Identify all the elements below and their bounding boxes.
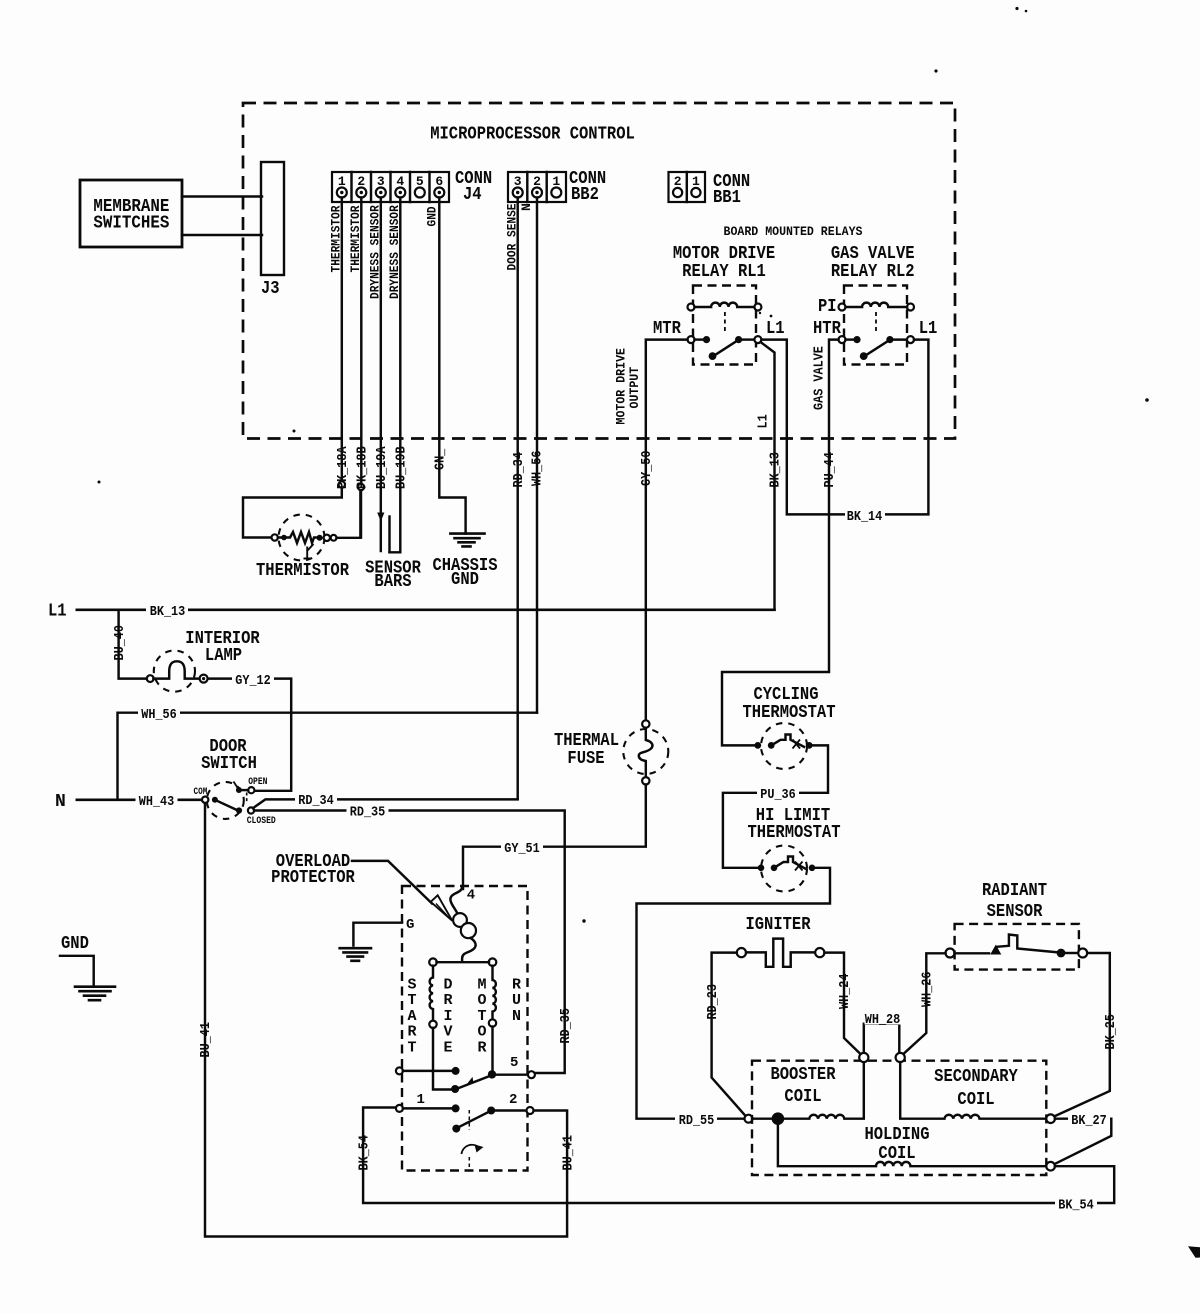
svg-text:BK_13: BK_13 — [768, 452, 784, 488]
microprocessor control dashed enclosure — [243, 103, 955, 439]
svg-text:L1: L1 — [48, 602, 67, 622]
RL2 contacts — [839, 336, 846, 343]
wire BK_25 radiant sensor right — [1054, 953, 1110, 1117]
svg-text:BK_14: BK_14 — [847, 509, 883, 525]
J4 pin 6 — [434, 188, 444, 198]
J4 pin 3 — [376, 188, 386, 198]
svg-text:1: 1 — [417, 1092, 425, 1108]
svg-text:WH_56: WH_56 — [530, 451, 546, 487]
svg-text:RELAY RL1: RELAY RL1 — [682, 262, 766, 282]
svg-text:RD_34: RD_34 — [298, 793, 334, 809]
splice node circle 1 — [859, 1053, 868, 1062]
svg-text:GY_12: GY_12 — [235, 673, 271, 689]
svg-text:OUTPUT: OUTPUT — [627, 367, 642, 409]
svg-text:R: R — [512, 977, 521, 994]
BB2 pin 1 — [551, 188, 561, 198]
wire WH_24 igniter right — [824, 953, 861, 1055]
svg-text:GAS VALVE: GAS VALVE — [812, 346, 828, 410]
wire GY_12 lamp to door switch OPEN — [208, 679, 291, 791]
overload protector callout — [271, 852, 452, 921]
door switch — [194, 737, 276, 827]
wire GY_51 thermal fuse to motor pin4 — [463, 785, 646, 890]
svg-text:D: D — [443, 977, 452, 994]
svg-text:COIL: COIL — [784, 1087, 821, 1107]
wire WH_56 from BB2 pin2 — [536, 198, 538, 713]
J4 pin 1 — [337, 188, 347, 198]
svg-text:IGNITER: IGNITER — [745, 915, 810, 935]
svg-text:R: R — [407, 1024, 416, 1041]
svg-text:BK_54: BK_54 — [1058, 1197, 1094, 1213]
svg-text:WH_24: WH_24 — [837, 974, 853, 1010]
svg-text:BK_13: BK_13 — [150, 604, 186, 620]
run winding — [493, 966, 496, 1020]
svg-text:RELAY RL2: RELAY RL2 — [831, 262, 915, 282]
svg-text:BOARD MOUNTED RELAYS: BOARD MOUNTED RELAYS — [724, 224, 863, 239]
motor switch row 5 — [396, 1055, 535, 1093]
J4 pin 5 — [415, 188, 425, 198]
svg-text:J3: J3 — [261, 279, 280, 299]
svg-text:GND: GND — [425, 206, 440, 226]
wire PK_18B from J4 pin2 — [360, 198, 362, 484]
svg-text:CYCLING: CYCLING — [753, 685, 818, 705]
svg-text:GAS VALVE: GAS VALVE — [831, 244, 915, 264]
svg-text:BK_54: BK_54 — [356, 1135, 372, 1171]
svg-text:COIL: COIL — [957, 1090, 994, 1110]
svg-text:BB2: BB2 — [571, 185, 599, 205]
wire PU_44 from RL2 to cycling thermostat — [722, 340, 839, 746]
node N bus — [77, 798, 203, 801]
svg-text:HTR: HTR — [813, 319, 841, 339]
connector BB2 — [508, 169, 606, 205]
svg-text:GY_51: GY_51 — [504, 841, 540, 857]
svg-text:LAMP: LAMP — [205, 646, 242, 666]
svg-text:GND: GND — [61, 934, 89, 954]
wire BK_14 linking RL1 L1 to RL2 L1 — [761, 340, 928, 515]
svg-text:RADIANT: RADIANT — [982, 881, 1047, 901]
svg-text:WH_26: WH_26 — [920, 972, 936, 1008]
svg-text:L1: L1 — [766, 319, 785, 339]
svg-text:RD_55: RD_55 — [679, 1113, 715, 1129]
svg-text:BB1: BB1 — [713, 188, 741, 208]
svg-text:SENSOR: SENSOR — [987, 902, 1043, 922]
wire RD_35 door switch to motor — [254, 811, 565, 1074]
svg-text:PI: PI — [818, 297, 837, 317]
svg-text:THERMAL: THERMAL — [554, 731, 619, 751]
svg-text:GN_: GN_ — [433, 448, 449, 470]
svg-text:R: R — [477, 1039, 486, 1056]
svg-text:HOLDING: HOLDING — [864, 1125, 929, 1145]
svg-text:PU_36: PU_36 — [760, 787, 796, 803]
svg-text:FUSE: FUSE — [567, 749, 604, 769]
igniter — [737, 915, 825, 967]
membrane switches box — [80, 180, 182, 247]
svg-text:L1: L1 — [919, 319, 938, 339]
wire BU_41 door switch to motor pin2 — [205, 803, 567, 1236]
svg-text:THERMOSTAT: THERMOSTAT — [743, 703, 836, 723]
wire RD_23 igniter left — [712, 953, 746, 1116]
svg-text:RD_34: RD_34 — [511, 452, 527, 488]
wire GY_50 (motor drive output) — [646, 340, 688, 721]
svg-text:CLOSED: CLOSED — [247, 816, 276, 827]
motor switch row 1-2 — [396, 1092, 534, 1167]
svg-text:S: S — [407, 977, 416, 994]
J4 pin 2 — [356, 188, 366, 198]
svg-text:WH_28: WH_28 — [865, 1012, 901, 1028]
wire membrane to J3 (upper) — [182, 195, 262, 197]
svg-text:RD_23: RD_23 — [705, 984, 721, 1020]
svg-text:BOOSTER: BOOSTER — [770, 1065, 835, 1085]
wire BU_19A from J4 pin3 (sensor bar left) — [380, 198, 382, 552]
svg-text:2: 2 — [674, 174, 682, 189]
svg-text:N: N — [55, 792, 66, 812]
svg-text:BK_25: BK_25 — [1103, 1014, 1119, 1050]
wire PK_18A from J4 pin1 — [341, 198, 343, 482]
wire hi-limit to igniter branch — [637, 868, 831, 1119]
svg-text:BU_40: BU_40 — [112, 625, 128, 661]
svg-text:OPEN: OPEN — [248, 777, 267, 788]
svg-text:R: R — [443, 992, 452, 1009]
svg-text:MOTOR DRIVE: MOTOR DRIVE — [673, 244, 775, 264]
wire PU_36 cycling to hi-limit — [723, 745, 828, 867]
svg-text:O: O — [477, 992, 486, 1009]
svg-text:N: N — [519, 203, 534, 211]
svg-text:PROTECTOR: PROTECTOR — [271, 868, 355, 888]
wire GN_ from J4 pin6 — [439, 198, 465, 534]
svg-text:M: M — [477, 977, 486, 994]
svg-text:T: T — [407, 992, 416, 1009]
svg-text:GY_50: GY_50 — [639, 451, 655, 487]
svg-text:1: 1 — [692, 174, 700, 189]
svg-text:BU_41: BU_41 — [560, 1135, 576, 1171]
svg-text:THERMISTOR: THERMISTOR — [256, 561, 349, 581]
sensor bar electrode — [388, 517, 390, 553]
svg-text:5: 5 — [510, 1055, 518, 1071]
wire BK_13 from RL1 L1 down to L1 bus — [761, 342, 775, 610]
thermal fuse — [554, 720, 668, 784]
wire WH_26 radiant sensor left — [903, 953, 946, 1054]
motor winding rail — [429, 958, 437, 966]
svg-text:PK_18A: PK_18A — [335, 446, 351, 489]
wire WH_56 horizontal — [118, 713, 538, 800]
svg-text:SWITCH: SWITCH — [201, 754, 257, 774]
wire BK_54 to motor switch — [363, 1108, 1114, 1204]
connector BB1 — [669, 172, 751, 208]
svg-text:WH_56: WH_56 — [141, 707, 177, 723]
RL2 coil — [839, 304, 846, 311]
svg-text:WH_43: WH_43 — [139, 794, 175, 810]
motor pin 4 curl and overload circles — [450, 886, 476, 960]
node BK_27 — [1046, 1114, 1055, 1123]
svg-text:U: U — [512, 992, 521, 1009]
RL1 contacts — [688, 336, 695, 343]
svg-text:O: O — [477, 1024, 486, 1041]
cycling thermostat — [743, 685, 836, 769]
wire BU_19B from J4 pin4 (sensor bar right) — [390, 198, 401, 553]
RL1 coil — [688, 304, 695, 311]
svg-text:SWITCHES: SWITCHES — [93, 214, 169, 234]
svg-text:N: N — [512, 1008, 521, 1025]
svg-text:MICROPROCESSOR CONTROL: MICROPROCESSOR CONTROL — [430, 125, 635, 145]
thermistor — [256, 490, 360, 581]
svg-text:PU_44: PU_44 — [822, 452, 838, 488]
svg-text:BU_41: BU_41 — [198, 1022, 214, 1058]
svg-text:L1: L1 — [756, 414, 772, 428]
wire RD_34 horizontal (door sense) — [253, 799, 518, 808]
svg-text:BU_19A: BU_19A — [374, 446, 390, 489]
svg-text:G: G — [406, 917, 414, 933]
svg-text:A: A — [407, 1008, 416, 1025]
junction dot booster coil left — [772, 1112, 785, 1125]
svg-text:COM: COM — [194, 787, 208, 798]
motor dashed box — [402, 886, 528, 1171]
wire WH_28 link — [864, 1024, 900, 1053]
motor drive relay RL1 — [653, 244, 785, 365]
svg-text:MTR: MTR — [653, 319, 681, 339]
wire RD_34 from BB2 pin3 (door sense) — [516, 198, 518, 799]
svg-text:4: 4 — [467, 888, 475, 904]
gas valve coil assembly dashed box — [752, 1061, 1046, 1175]
svg-text:T: T — [477, 1008, 486, 1025]
svg-text:J4: J4 — [463, 185, 482, 205]
svg-text:THERMOSTAT: THERMOSTAT — [748, 823, 841, 843]
svg-text:SECONDARY: SECONDARY — [934, 1067, 1018, 1087]
hi limit thermostat — [748, 806, 841, 892]
start winding — [430, 966, 433, 1021]
svg-text:2: 2 — [509, 1092, 517, 1108]
node L1 bus — [77, 608, 775, 611]
svg-text:GND: GND — [451, 570, 479, 590]
svg-text:RD_35: RD_35 — [350, 804, 386, 820]
stray arrow mark bottom-right — [1188, 1246, 1200, 1258]
svg-text:BU_19B: BU_19B — [394, 446, 410, 489]
svg-text:V: V — [443, 1024, 452, 1041]
stray speck marks — [1015, 7, 1018, 10]
connector J3 — [261, 162, 284, 299]
booster coil — [770, 1062, 863, 1119]
svg-text:PK_18B: PK_18B — [355, 446, 371, 489]
svg-text:T: T — [407, 1039, 416, 1056]
motor ground G — [340, 917, 415, 961]
connector J4 — [332, 169, 492, 205]
BB2 pin 2 — [532, 188, 542, 198]
svg-text:RD_35: RD_35 — [558, 1008, 574, 1044]
gas valve relay RL2 — [813, 244, 937, 365]
splice node circle 2 — [896, 1053, 905, 1062]
chassis ground symbol — [432, 534, 497, 590]
interior lamp — [147, 629, 260, 692]
wire membrane to J3 (lower) — [182, 234, 262, 236]
wire BU_40 to interior lamp — [119, 610, 147, 679]
BB2 pin 3 — [513, 188, 523, 198]
junction connector on RD_55 — [745, 1115, 753, 1123]
winding labels — [407, 977, 521, 1057]
GND symbol (left) — [60, 934, 115, 1000]
J4 pin 4 — [395, 188, 405, 198]
radiant sensor — [946, 881, 1088, 970]
svg-text:I: I — [443, 1008, 452, 1025]
svg-text:BK_27: BK_27 — [1071, 1113, 1107, 1129]
secondary coil — [900, 1062, 1046, 1119]
svg-text:E: E — [443, 1039, 452, 1056]
svg-text:BARS: BARS — [374, 572, 411, 592]
holding coil — [778, 1124, 1055, 1170]
